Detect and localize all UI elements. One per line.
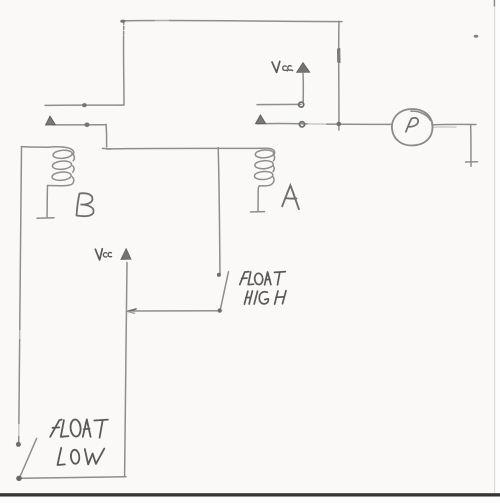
junction blob at rail crossing	[336, 122, 341, 126]
wire coil A to ground	[258, 186, 259, 211]
faint double stroke near pump	[433, 126, 456, 128]
node circle A lower	[299, 122, 304, 127]
wire pump to ground	[432, 123, 476, 126]
wire rail right segment	[107, 147, 268, 150]
ground coil A	[251, 211, 265, 213]
contact triangle A	[256, 115, 266, 124]
wire relay-A lower contact to pump	[257, 122, 307, 124]
vcc arrow mid-left	[121, 249, 131, 260]
wire pump ground vertical	[470, 125, 472, 167]
wire left rail vertical	[19, 147, 22, 443]
pump circle overdrawn arc	[411, 111, 430, 120]
label B	[77, 193, 94, 216]
switch float-low blade	[20, 438, 37, 477]
contact triangle B	[46, 116, 56, 125]
node dot float-low bottom	[16, 476, 22, 481]
wire float-high to vcc line	[132, 310, 220, 312]
wire top-left vertical	[123, 21, 125, 36]
coil A	[267, 148, 275, 155]
wire relay-B upper contact	[45, 104, 124, 106]
right scan edge dark tick top	[494, 0, 495, 7]
darker overdrawn segment on top-right vertical	[338, 48, 340, 63]
node circle A upper	[299, 102, 304, 107]
node dot float-high bottom	[218, 308, 222, 312]
wire vcc mid-left vertical	[125, 263, 127, 477]
label vcc top	[272, 61, 293, 72]
ground coil B	[37, 217, 54, 219]
stray pencil speck top right	[474, 35, 479, 38]
right scan edge white strip	[495, 0, 500, 503]
label HIGH	[244, 291, 286, 305]
label vcc mid-left	[95, 249, 111, 260]
wire vcc drop to contact	[302, 74, 304, 104]
corner blob top-left	[120, 20, 125, 23]
right scan edge faint line	[494, 0, 495, 503]
corner tick at bend	[103, 147, 112, 150]
coil B	[48, 147, 74, 155]
faded patch on top wire	[155, 19, 169, 23]
node dot B upper	[82, 103, 87, 107]
label P	[406, 118, 418, 132]
arrow left into vcc line	[128, 309, 136, 311]
bottom scanner dark band	[0, 493, 500, 496]
wire bottom horizontal	[20, 477, 126, 478]
node dot float-high top	[217, 273, 221, 277]
ground pump	[466, 161, 478, 163]
wire top horizontal	[123, 20, 342, 21]
node dot float-low top	[16, 442, 21, 447]
switch float-high blade	[220, 272, 228, 310]
node dot B lower	[85, 123, 90, 128]
wire rail left segment	[22, 146, 49, 149]
faded patches on left rail (pencil pressure variation)	[17, 424, 21, 436]
label FLOAT (high)	[240, 272, 286, 285]
label LOW	[58, 448, 105, 465]
wire coil B to ground	[46, 186, 49, 218]
label FLOAT (low)	[50, 419, 108, 438]
wire relay-B lower contact	[52, 124, 106, 126]
wire float-high vertical	[218, 148, 220, 274]
wire top-right vertical	[338, 21, 340, 130]
wire bend to rail	[105, 124, 108, 147]
label A	[282, 185, 299, 209]
wire relay-A upper contact	[257, 103, 301, 105]
pump P circle	[392, 109, 433, 146]
vcc arrow top	[297, 63, 310, 73]
